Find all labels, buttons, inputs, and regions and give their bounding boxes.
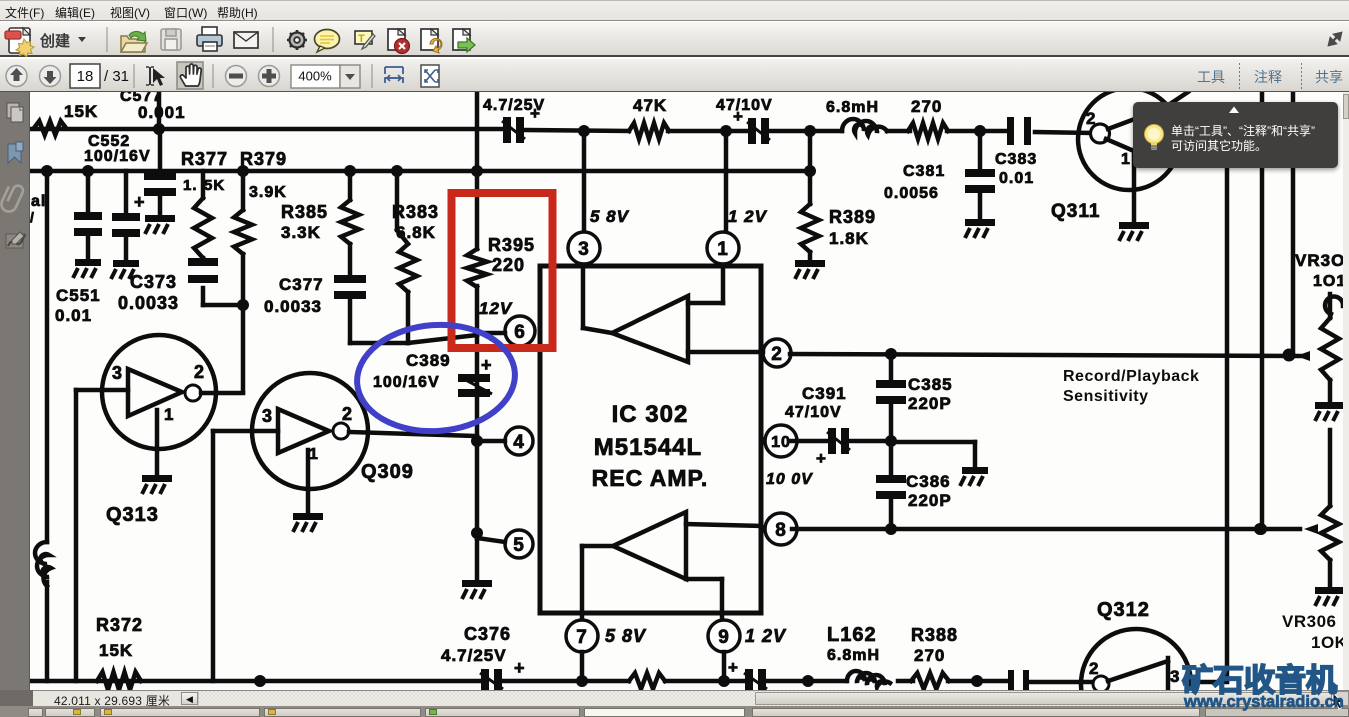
capacitor C551	[86, 171, 91, 212]
annotation red rectangle (R395)	[452, 193, 553, 348]
annotation blue ellipse (C389)	[353, 320, 518, 437]
pin 5	[505, 530, 533, 558]
select tool	[146, 67, 165, 86]
op-amp lower triangle	[613, 512, 686, 579]
pin 2	[763, 339, 791, 367]
gear	[287, 30, 307, 50]
op-amp IC302 box	[540, 266, 761, 613]
svg-text:400%: 400%	[298, 69, 332, 84]
resistor 15K (top-left)	[34, 121, 66, 135]
wire vertical x76	[74, 390, 79, 681]
pages icon	[7, 103, 23, 122]
scroll mode icon	[385, 67, 403, 83]
delete page	[388, 29, 410, 54]
capacitor C385 220P	[889, 354, 894, 380]
export page (orange)	[421, 29, 442, 53]
wire top bus	[30, 127, 503, 132]
wire vertical x1227	[1225, 168, 1230, 681]
potentiometer VR306 10K (right)	[1328, 430, 1333, 506]
transistor Q309	[252, 373, 368, 489]
wire Q309 output to IC pin4	[349, 432, 477, 436]
capacitor electrolytic (input)	[124, 171, 129, 213]
node C571 stub	[157, 92, 162, 129]
comment bubble	[315, 30, 340, 53]
create icon	[5, 28, 34, 57]
text tool	[355, 31, 375, 49]
hand tool pressed	[177, 62, 203, 89]
svg-text:创建: 创建	[39, 32, 71, 50]
wire bottom ground bus	[30, 679, 481, 684]
pin 4	[505, 427, 533, 455]
op-amp upper triangle	[612, 296, 688, 362]
svg-text:T: T	[358, 33, 365, 45]
capacitor C373	[201, 258, 206, 260]
inductor left edge	[45, 171, 50, 542]
pin 7	[580, 613, 585, 620]
capacitor (series, before Q312)	[1008, 670, 1014, 694]
pin 1	[724, 131, 729, 232]
ground between C385/C386	[891, 440, 975, 445]
save (disabled)	[161, 29, 181, 50]
pin 6	[505, 316, 535, 346]
fit page icon	[421, 65, 439, 87]
resistor R389 1.8K	[808, 131, 813, 204]
resistor (between pin7 and pin9)	[629, 673, 665, 689]
svg-text:18: 18	[77, 68, 94, 85]
wire main bus y171	[30, 169, 810, 174]
page up	[6, 66, 27, 87]
pin 10	[765, 425, 797, 457]
resistor R395 220	[467, 249, 487, 287]
print	[197, 27, 222, 51]
svg-text:/ 31: / 31	[104, 68, 129, 85]
paperclip icon	[0, 182, 25, 214]
save-as page (green)	[453, 29, 475, 52]
wire vertical x1261	[1260, 92, 1265, 529]
expand arrows top right	[1329, 33, 1341, 45]
pin 8	[765, 513, 797, 545]
transistor Q313	[102, 335, 216, 449]
wire vertical x1296 from Q311 to VR301 wire	[1291, 92, 1296, 356]
junction dots x477	[471, 435, 483, 447]
pin 3	[582, 131, 587, 232]
zoom box	[291, 65, 340, 88]
zoom out	[226, 66, 247, 87]
junction dots top bus	[153, 123, 165, 135]
wire pin2 to VR301	[790, 354, 1300, 356]
pin 9	[720, 613, 725, 620]
email	[234, 32, 258, 48]
ground C552	[145, 215, 175, 222]
transistor Q311	[1078, 88, 1180, 190]
ground main vertical	[462, 580, 492, 587]
zoom in	[259, 66, 280, 87]
signature icon	[6, 232, 25, 248]
wire Q311 collector to right verticals	[1146, 118, 1227, 123]
page down	[40, 66, 61, 87]
main vertical node line x477	[475, 92, 480, 249]
wire vertical x213	[211, 431, 216, 681]
open folder	[121, 31, 147, 52]
capacitor C386 220P	[889, 441, 894, 475]
bookmark icon	[8, 144, 21, 163]
wire Q313 output to R379	[201, 391, 243, 396]
lightbulb icon	[1145, 125, 1164, 144]
